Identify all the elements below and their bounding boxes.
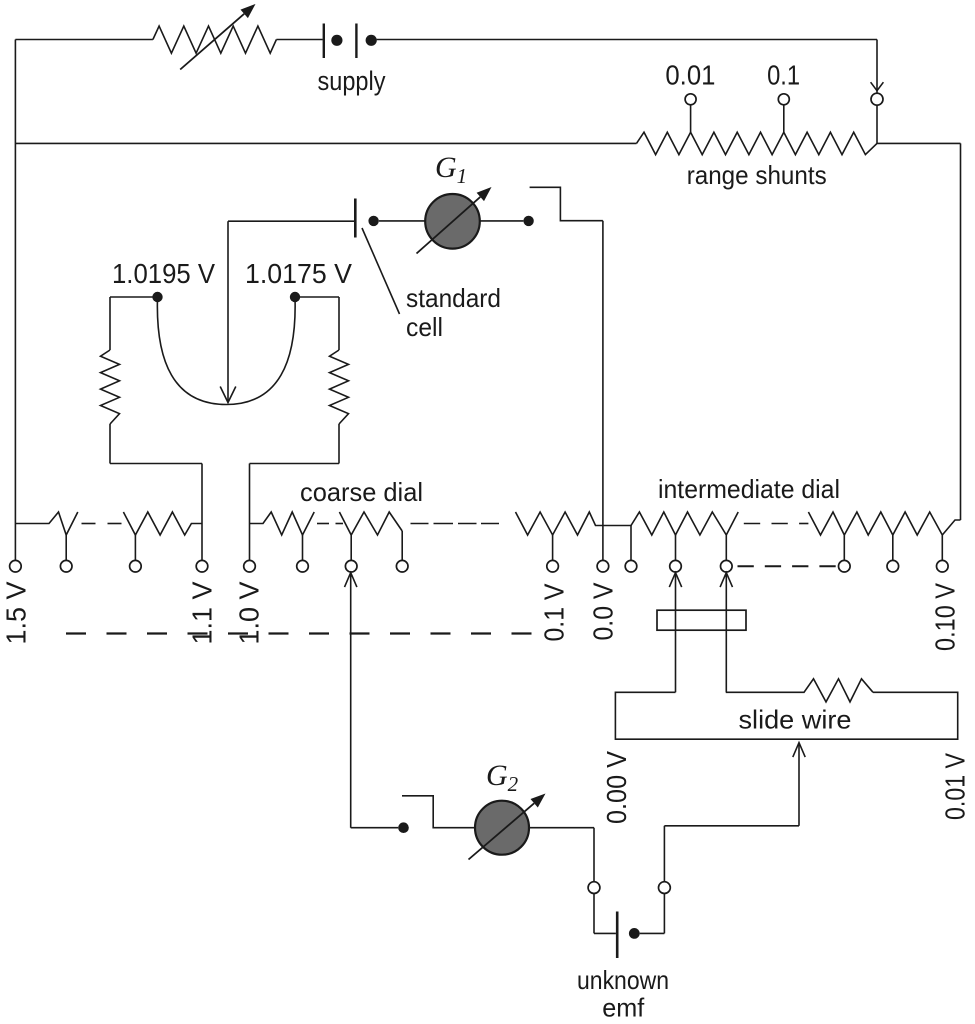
svg-text:coarse dial: coarse dial bbox=[300, 477, 423, 507]
svg-text:0.1: 0.1 bbox=[767, 60, 800, 91]
svg-text:slide wire: slide wire bbox=[739, 705, 852, 735]
svg-text:unknown: unknown bbox=[577, 965, 669, 995]
svg-text:1.0175 V: 1.0175 V bbox=[245, 258, 352, 289]
svg-text:1.0195 V: 1.0195 V bbox=[112, 258, 215, 289]
svg-text:0.0 V: 0.0 V bbox=[587, 582, 618, 640]
svg-text:1.1 V: 1.1 V bbox=[187, 581, 218, 644]
svg-text:0.00 V: 0.00 V bbox=[601, 751, 632, 824]
svg-text:standard: standard bbox=[406, 283, 501, 313]
svg-text:1.5 V: 1.5 V bbox=[1, 581, 32, 644]
svg-text:emf: emf bbox=[602, 993, 645, 1023]
svg-text:intermediate dial: intermediate dial bbox=[658, 474, 840, 504]
svg-text:1.0 V: 1.0 V bbox=[234, 581, 265, 644]
svg-text:0.01 V: 0.01 V bbox=[939, 753, 970, 820]
svg-text:0.10 V: 0.10 V bbox=[930, 583, 961, 651]
svg-text:0.01: 0.01 bbox=[665, 60, 715, 91]
svg-text:cell: cell bbox=[406, 312, 443, 342]
svg-text:range shunts: range shunts bbox=[687, 160, 827, 190]
svg-text:0.1 V: 0.1 V bbox=[538, 583, 569, 641]
svg-text:supply: supply bbox=[318, 66, 386, 96]
